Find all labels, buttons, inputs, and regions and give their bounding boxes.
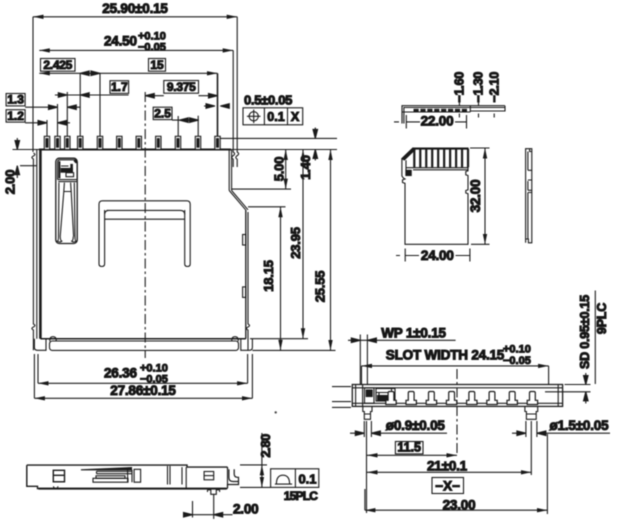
- top view: left outer shell line with break squiggles: [32, 153, 35, 350]
- dim 25.55: [330, 150, 332, 351]
- front view: right mounting post: [525, 406, 538, 419]
- top view: U spring inner band: [105, 210, 185, 219]
- svg-text:1.3: 1.3: [7, 93, 24, 107]
- svg-text:32.00: 32.00: [468, 180, 483, 213]
- svg-text:18.15: 18.15: [261, 260, 276, 292]
- SD card left rim inner: [405, 160, 407, 170]
- dim 5.00: [232, 188, 291, 190]
- svg-text:−X−: −X−: [435, 479, 460, 494]
- side view: body outline: [27, 465, 228, 489]
- top view: left wall thick line: [39, 150, 42, 339]
- top edge extension to right: [231, 149, 337, 151]
- svg-text:−1.30: −1.30: [472, 72, 486, 103]
- dim 1.2 dimension line: [25, 122, 70, 124]
- pin 7: [136, 136, 141, 149]
- dim 1.3 dimension line: [25, 106, 80, 108]
- front view: inner top line: [352, 387, 562, 389]
- front view: left mounting post: [363, 406, 372, 419]
- pin 3: [65, 136, 70, 149]
- dim SD 0.95±0.15 right side: [565, 384, 591, 386]
- dim 25.90 extension lines: [32, 17, 34, 152]
- top view: card stop inverted-U spring: [99, 201, 190, 267]
- svg-text:2.00: 2.00: [3, 170, 18, 195]
- pin 2: [55, 136, 60, 149]
- svg-text:WP 1±0.15: WP 1±0.15: [381, 326, 446, 341]
- side view: internal dividers: [168, 466, 228, 488]
- dim 2.5 dimension line: [172, 119, 199, 121]
- dim 18.15: [248, 206, 286, 208]
- dim 9.375 boxed label: [164, 81, 199, 94]
- svg-text:1.40: 1.40: [298, 155, 313, 180]
- dim 2.5 boxed label: [153, 107, 172, 119]
- pin extension lines for 15 dim: [99, 73, 101, 136]
- svg-text:SD 0.95±0.15: SD 0.95±0.15: [578, 295, 592, 369]
- front contact at 492: [487, 392, 497, 405]
- SD card side profile: [526, 149, 532, 243]
- svg-text:0.5±0.05: 0.5±0.05: [244, 93, 292, 108]
- dim 1.7 dimension line and arrows: [55, 94, 129, 96]
- front contact at 431.4: [426, 392, 436, 405]
- dim 1.2 boxed label: [6, 110, 25, 122]
- dim ø1.5±0.05: [525, 421, 527, 437]
- dim 26.36 +0.10/-0.05: [37, 354, 39, 383]
- dim 25.90±0.15 line: [33, 16, 237, 18]
- pin 9: [175, 136, 180, 149]
- dim ø0.9±0.05: [363, 421, 365, 437]
- pin 4: [78, 136, 83, 149]
- dim 9.375 dimension line: [145, 95, 217, 97]
- SD card front view outline: [413, 148, 468, 150]
- svg-text:21±0.1: 21±0.1: [427, 459, 468, 474]
- top view: right wall double line: [228, 150, 230, 191]
- svg-text:2.00: 2.00: [233, 502, 258, 517]
- svg-text:SLOT WIDTH 24.15: SLOT WIDTH 24.15: [386, 348, 505, 363]
- SD card contact rail: [406, 168, 468, 170]
- dim 1.40: [314, 128, 316, 139]
- top view: latch cam internals: [58, 161, 60, 178]
- top view: bottom left foot: [34, 339, 46, 351]
- side view: bottom solder tab: [208, 488, 220, 494]
- front contact at 451.6: [446, 392, 456, 405]
- svg-text:24.50: 24.50: [104, 34, 137, 49]
- dim 2.425 and 15 shared dimension line: [39, 72, 217, 74]
- svg-text:24.00: 24.00: [421, 248, 454, 263]
- top view: slider mechanism outer: [56, 158, 77, 243]
- svg-text:15PLC: 15PLC: [284, 489, 318, 503]
- svg-text:+0.10: +0.10: [503, 344, 531, 356]
- front view: centerline: [456, 369, 458, 456]
- svg-text:9PLC: 9PLC: [595, 303, 609, 334]
- svg-text:0.1: 0.1: [298, 471, 316, 486]
- svg-text:0.1: 0.1: [267, 110, 284, 124]
- SD card edge view outline: [402, 106, 505, 124]
- dim 11.5 boxed: [395, 442, 423, 454]
- front contact at 512.2: [507, 392, 517, 405]
- front view: body outline: [352, 385, 562, 407]
- svg-text:2.425: 2.425: [43, 58, 72, 72]
- svg-text:−0.05: −0.05: [138, 42, 166, 54]
- GD&T frame profile 0.1: [271, 469, 319, 488]
- top view: right chamfer: [229, 191, 248, 210]
- SD card chamfer inner line: [402, 148, 415, 160]
- svg-text:−0.05: −0.05: [503, 355, 531, 367]
- svg-text:−1.60: −1.60: [453, 72, 467, 103]
- front view: left edge stubs: [332, 387, 351, 408]
- svg-text:27.86±0.15: 27.86±0.15: [110, 383, 176, 398]
- dim 24.00: [396, 255, 470, 257]
- svg-text:23.95: 23.95: [288, 227, 303, 259]
- front view: left inner walls: [355, 385, 357, 407]
- top view: right wall lower: [245, 210, 247, 339]
- front contact at 411.2: [406, 392, 416, 405]
- dim 1.7 boxed label: [110, 81, 129, 94]
- svg-text:1.7: 1.7: [111, 80, 128, 94]
- svg-text:15: 15: [150, 58, 164, 72]
- svg-text:5.00: 5.00: [272, 157, 287, 182]
- pin 11: [215, 136, 220, 149]
- svg-text:X: X: [291, 110, 300, 124]
- centerline main view: [144, 92, 146, 358]
- svg-text:25.55: 25.55: [313, 271, 328, 303]
- svg-text:2.80: 2.80: [259, 434, 273, 458]
- SD contact stripes: [413, 149, 415, 168]
- dim 2.00 side view: [192, 501, 194, 518]
- top view: bottom right foot: [241, 339, 253, 351]
- dim 15 boxed label: [149, 59, 166, 72]
- SD edge contacts: [414, 109, 419, 112]
- side view: right retention feature: [204, 472, 214, 480]
- svg-text:22.00: 22.00: [421, 114, 454, 129]
- top view: right outer shell line with break squiggle: [247, 212, 250, 350]
- dim 2.80: [240, 464, 267, 466]
- dim 23.95: [302, 150, 304, 339]
- pin 8: [156, 136, 161, 149]
- dim 2.00 left side: [13, 149, 40, 151]
- front contact at 471.8: [467, 392, 477, 405]
- front contact at 391: [386, 392, 396, 405]
- svg-text:2.5: 2.5: [154, 106, 171, 120]
- dim 32.00: [470, 147, 490, 149]
- svg-text:26.36: 26.36: [104, 366, 137, 381]
- side view: right hook foot: [228, 467, 239, 488]
- side view: lever and contact stack: [81, 468, 132, 470]
- top view: slider lever arm: [59, 183, 76, 237]
- GD&T frame position 0.1 X: [243, 108, 303, 125]
- svg-text:9.375: 9.375: [167, 80, 196, 94]
- front contact at 532.4: [527, 392, 537, 405]
- svg-text:1.2: 1.2: [7, 109, 24, 123]
- pin feet extension line y=138.4: [220, 137, 337, 139]
- top view: right edge contact windows: [243, 235, 246, 246]
- svg-text:ø1.5±0.05: ø1.5±0.05: [550, 418, 610, 433]
- front view: right inner wall: [557, 385, 559, 407]
- front view: latch detail blocks: [365, 388, 375, 403]
- svg-text:ø0.9±0.05: ø0.9±0.05: [386, 418, 446, 433]
- flange bottom extension line to right: [252, 349, 335, 351]
- top view: bottom edge: [40, 338, 245, 340]
- top view: left wall inner line: [36, 150, 38, 339]
- front view: inner bottom line: [352, 402, 562, 404]
- datum -X- boxed: [432, 478, 464, 494]
- svg-text:25.90±0.15: 25.90±0.15: [102, 1, 168, 16]
- top view: slider feet: [57, 237, 62, 243]
- pin 10: [195, 136, 200, 149]
- SD card WP switch: [406, 170, 411, 175]
- top view: slider latch cam box: [58, 160, 78, 180]
- top view: connector body top edge: [39, 149, 231, 151]
- svg-text:−2.10: −2.10: [487, 72, 501, 103]
- dim 27.86±0.15: [33, 354, 35, 398]
- dim 1.3 boxed label: [6, 94, 25, 106]
- top view: bottom flange bar: [50, 341, 239, 350]
- dim 24.50 +0.10/-0.05 line: [39, 49, 233, 51]
- pin 5: [97, 136, 102, 149]
- svg-text:11.5: 11.5: [397, 441, 421, 455]
- pin 6: [117, 136, 122, 149]
- pin 1: [44, 136, 49, 149]
- side view: left retention feature: [53, 470, 64, 482]
- dim 22.00: [394, 121, 467, 123]
- dim 2.425 boxed label: [41, 59, 76, 72]
